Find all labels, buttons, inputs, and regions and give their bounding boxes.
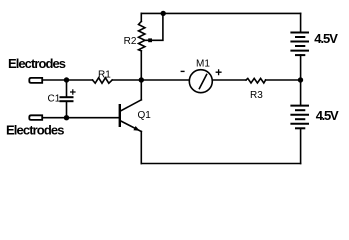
svg-text:Q1: Q1 — [138, 110, 152, 121]
wire R3 to right rail — [266, 79, 301, 81]
electrode terminal bottom — [29, 115, 42, 120]
node dot C1 bottom — [64, 115, 69, 120]
electrode terminal top — [29, 78, 42, 83]
transistor Q1 base bar — [119, 104, 121, 127]
svg-text:C1: C1 — [48, 94, 61, 105]
wire R2 top stub — [140, 13, 142, 21]
wire top electrode to R1 — [42, 79, 92, 81]
node dot C1 top — [64, 77, 69, 82]
capacitor C1 bottom lead — [66, 102, 68, 118]
meter M1 needle — [199, 74, 207, 89]
transistor Q1 collector lead — [121, 100, 142, 111]
meter M1 minus sign — [181, 70, 185, 72]
battery B1 plates — [290, 33, 309, 56]
wire bottom electrode to base — [42, 117, 118, 119]
wire battery B1 to battery B2 — [300, 55, 302, 106]
resistor R3 — [246, 78, 266, 83]
svg-text:Electrodes: Electrodes — [6, 123, 65, 138]
transistor Q1 emitter lead — [121, 121, 142, 132]
R2 wiper arrow — [148, 38, 152, 42]
transistor Q1 emitter arrow — [133, 126, 139, 131]
wire top rail — [141, 12, 300, 14]
battery B2 plates — [290, 106, 309, 129]
capacitor C1 plus sign — [70, 89, 76, 95]
meter M1 plus sign — [216, 69, 222, 75]
svg-text:R3: R3 — [250, 90, 263, 101]
node dot collector net — [139, 77, 144, 82]
wire battery B2 to bottom rail — [300, 128, 302, 163]
svg-text:R2: R2 — [124, 36, 137, 47]
resistor R1 — [93, 78, 113, 83]
capacitor C1 plates — [60, 97, 74, 101]
resistor R2 — [139, 21, 145, 51]
wire bottom rail — [141, 163, 300, 165]
wire top right corner down to battery B1 — [300, 13, 302, 32]
wire M1 to R3 — [212, 79, 246, 81]
node dot battery mid — [298, 77, 303, 82]
node dot wiper top — [161, 11, 166, 16]
svg-text:4.5V: 4.5V — [314, 31, 338, 46]
svg-text:M1: M1 — [196, 59, 210, 70]
wire R1 to M1 — [112, 79, 189, 81]
wire emitter down — [140, 132, 142, 164]
wire R2 bottom to collector node — [140, 51, 142, 100]
svg-text:R1: R1 — [98, 70, 111, 81]
meter M1 circle — [189, 70, 212, 93]
svg-text:Electrodes: Electrodes — [8, 56, 66, 71]
capacitor C1 top lead — [66, 80, 68, 96]
svg-text:4.5V: 4.5V — [316, 108, 339, 123]
wire R2 wiper — [145, 13, 163, 40]
